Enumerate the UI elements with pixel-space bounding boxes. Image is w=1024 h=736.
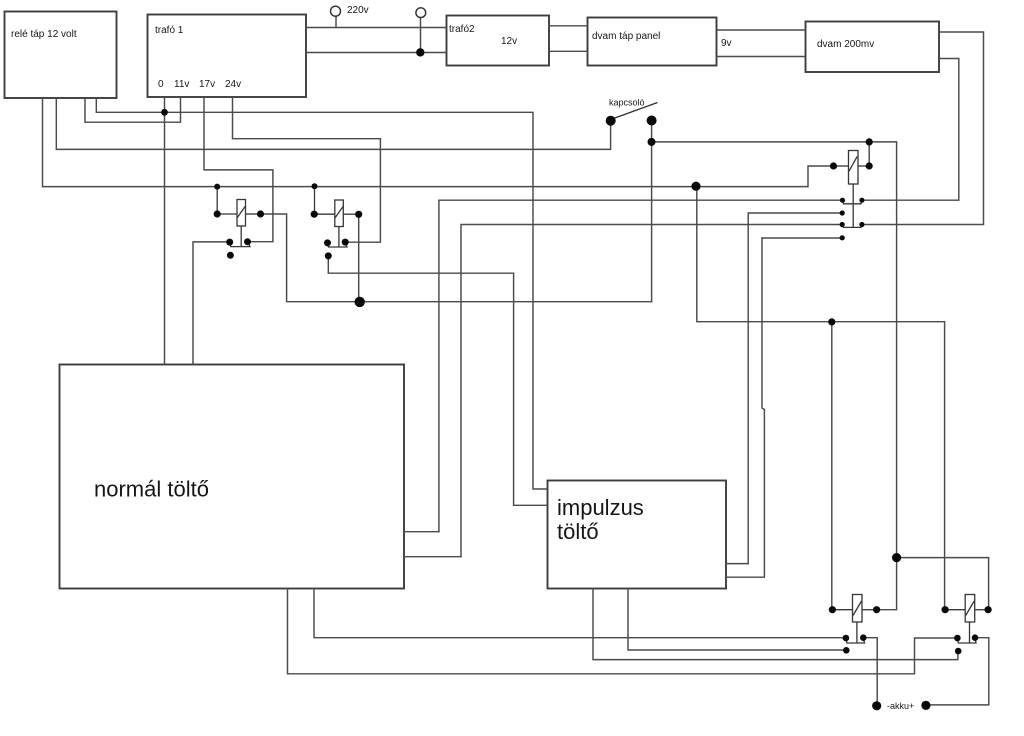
svg-text:-akku+: -akku+ <box>887 701 914 711</box>
svg-text:17v: 17v <box>199 79 215 90</box>
svg-text:impulzus: impulzus <box>557 495 644 520</box>
svg-text:0: 0 <box>158 79 164 90</box>
svg-text:trafó 1: trafó 1 <box>155 25 184 36</box>
svg-text:9v: 9v <box>721 38 732 49</box>
svg-text:12v: 12v <box>501 36 517 47</box>
svg-text:dvam 200mv: dvam 200mv <box>817 39 874 50</box>
svg-text:trafó2: trafó2 <box>449 24 475 35</box>
svg-text:töltő: töltő <box>557 519 599 544</box>
svg-text:dvam táp panel: dvam táp panel <box>592 31 660 42</box>
svg-text:relé táp 12 volt: relé táp 12 volt <box>11 29 77 40</box>
svg-text:24v: 24v <box>225 79 241 90</box>
svg-text:normál töltő: normál töltő <box>94 477 209 502</box>
svg-text:kapcsoló: kapcsoló <box>609 98 645 108</box>
svg-text:220v: 220v <box>347 5 369 16</box>
svg-text:11v: 11v <box>174 79 189 90</box>
